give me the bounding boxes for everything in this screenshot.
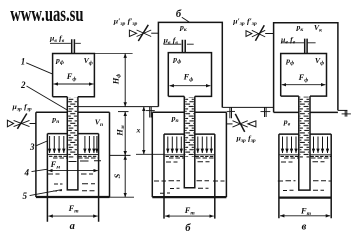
svg-text:1: 1 (21, 57, 26, 67)
left stub orifice B (150, 107, 152, 118)
outer chamber V (274, 23, 338, 113)
svg-text:4: 4 (24, 167, 30, 177)
ladle rim (47, 133, 98, 135)
snorkel hatch V (300, 97, 309, 158)
svg-text:S: S (113, 173, 122, 178)
svg-text:3: 3 (29, 142, 35, 152)
right valve B (233, 114, 256, 132)
chamber box 3 (36, 112, 110, 197)
vent pipe B (182, 40, 185, 53)
leader lines 1-5 (26, 63, 67, 196)
valve pipe V (265, 33, 273, 35)
vessel B (168, 53, 211, 97)
svg-text:2: 2 (20, 80, 26, 90)
orifice line A (50, 42, 81, 44)
Fm arrow A (48, 170, 98, 172)
right corner + connector to V (222, 106, 273, 108)
lower chamber B (152, 111, 226, 113)
vessel 1 (vacuum chamber) (53, 54, 95, 97)
liquid dash rows V (278, 162, 331, 191)
snorkel V (299, 96, 310, 190)
vessel V (281, 54, 327, 97)
valve V (246, 25, 265, 41)
snorkel hatch A (68, 97, 77, 158)
dimension lines right of A (78, 54, 158, 198)
lid level lines V (274, 111, 338, 113)
svg-text:а: а (70, 221, 75, 232)
right corner V (338, 109, 348, 111)
metal band V (279, 155, 331, 158)
ladle B (164, 134, 215, 219)
svg-text:б: б (176, 9, 182, 20)
snorkel B (184, 96, 195, 187)
x dimension B (136, 107, 164, 155)
left stub orifice V (265, 107, 267, 117)
ladle V (279, 134, 331, 218)
svg-text:в: в (302, 221, 307, 232)
svg-text:5: 5 (23, 191, 28, 201)
valve A (adjustable throttle) (7, 114, 29, 129)
vessel top extension line (94, 53, 132, 55)
snorkel walls (67, 97, 78, 190)
chamber lid (36, 111, 110, 113)
metal band B (164, 155, 215, 158)
right valve pipe B (226, 123, 232, 125)
metal arrows A (50, 136, 97, 153)
metal arrows B (168, 137, 212, 154)
ladle walls + Ft extensions (47, 134, 98, 222)
snorkel hatch B (185, 97, 194, 157)
left valve pipe B (151, 32, 158, 34)
Ff arrow B (170, 85, 211, 87)
outer chamber B (158, 22, 222, 107)
metal arrows V (283, 137, 328, 154)
vent pipe V (305, 39, 307, 54)
b leader (182, 17, 190, 22)
svg-text:www.uas.su: www.uas.su (10, 2, 84, 27)
Ft dim A (48, 215, 97, 217)
Ff arrow A (54, 83, 94, 85)
Ft dim B (165, 215, 214, 217)
Ft dim V (280, 215, 330, 217)
vent pipe A (72, 39, 75, 53)
Ff arrow V (282, 84, 326, 86)
valve pipe A (30, 123, 36, 125)
svg-text:x: x (136, 125, 141, 134)
left valve B (129, 25, 151, 41)
metal surface band A (47, 155, 98, 158)
svg-text:б: б (185, 223, 191, 234)
right stub orifice B (230, 108, 232, 119)
liquid dash rows B (154, 162, 225, 194)
liquid dash rows A (48, 161, 102, 191)
